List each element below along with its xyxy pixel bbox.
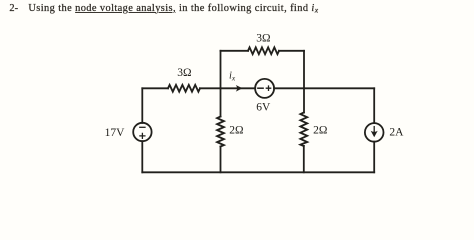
wire: middle horizontal from R2 to 6V source [200, 87, 255, 89]
wire: top horizontal left lead [221, 50, 249, 52]
svg-text:2Ω: 2Ω [313, 125, 327, 137]
resistor R4 2ohm (right vertical) [300, 113, 307, 147]
wire: top-left vertical (node B up to top branch) [220, 51, 222, 89]
label 3ohm middle [177, 67, 191, 79]
wire: left vertical lower (17V source to bottom wire) [141, 141, 143, 172]
label 17V [105, 127, 126, 139]
label 6V [256, 102, 271, 114]
wire: top-right vertical down to middle wire [303, 51, 305, 89]
svg-text:6V: 6V [256, 102, 271, 114]
title text [9, 4, 18, 14]
wire: middle horizontal from 6V source to right node [274, 87, 374, 89]
V1 plus sign [140, 133, 145, 138]
svg-text:ix: ix [229, 71, 236, 83]
svg-text:17V: 17V [105, 127, 126, 139]
current arrow ix head [236, 85, 243, 92]
V1 minus sign [140, 126, 145, 128]
wire: branch2 vertical upper (node C to R4) [303, 88, 305, 112]
label 2ohm left [229, 125, 243, 137]
voltage source V2 6V (circle) [255, 79, 274, 98]
label ix current [229, 71, 236, 83]
wire: bottom horizontal [142, 171, 374, 173]
I1 arrow shaft [373, 127, 375, 134]
wire: right vertical upper (to 2A source) [373, 88, 375, 123]
I1 arrow head [371, 131, 378, 138]
resistor R1 3ohm (top) [248, 47, 279, 54]
label 2A [389, 127, 404, 139]
svg-text:2A: 2A [389, 127, 404, 139]
svg-text:3Ω: 3Ω [256, 33, 270, 45]
resistor R3 2ohm (left vertical) [217, 117, 224, 147]
voltage source V1 17V (circle) [133, 123, 151, 141]
V2 minus sign [258, 87, 263, 89]
svg-text:2Ω: 2Ω [229, 125, 243, 137]
wire: branch1 vertical lower (R3 to bottom) [220, 147, 222, 173]
wire: branch1 vertical upper (node B to R3) [220, 88, 222, 116]
current source I1 2A (circle) [365, 123, 384, 142]
wire: right vertical lower (2A source to bottom) [373, 142, 375, 173]
svg-text:3Ω: 3Ω [177, 67, 191, 79]
wire: branch2 vertical lower (R4 to bottom) [303, 146, 305, 172]
wire: top horizontal right lead [279, 50, 304, 52]
wire: left vertical upper (node A down to 17V source) [141, 88, 143, 123]
wire: middle horizontal left segment (node A to resistor R2) [142, 87, 168, 89]
label 2ohm right [313, 125, 327, 137]
V2 plus sign [266, 86, 270, 90]
label 3ohm top [256, 33, 270, 45]
resistor R2 3ohm (middle horizontal) [168, 85, 200, 92]
